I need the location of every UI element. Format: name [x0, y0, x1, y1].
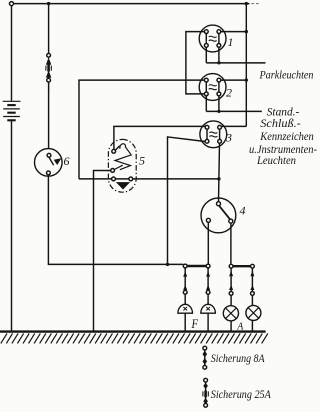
svg-text:F: F: [191, 316, 199, 331]
wire rheostat 5 bottom rail to lamp3/switch wire: [79, 178, 219, 180]
svg-text:Stand.-: Stand.-: [267, 107, 300, 119]
rheostat 5 (instrument light dimmer): [108, 139, 136, 192]
wire lamp 2 bottom bracket with leader to Stand label: [206, 96, 261, 112]
wire lamp 1 upper-left terminal down to lamp 2 lower-left terminal: [186, 32, 205, 94]
fuse element beads on drop F1: [183, 271, 187, 290]
svg-text:Sicherung 25A: Sicherung 25A: [211, 389, 271, 401]
fuse element beads on drop A2: [250, 271, 254, 290]
svg-text:Kennzeichen: Kennzeichen: [259, 131, 314, 143]
wire lamp 2 upper-right terminal to supply riser: [221, 79, 247, 81]
wire fuse drop A1: [230, 268, 232, 306]
wire switch 6 down then right to fuse bar F: [48, 176, 183, 264]
svg-text:2: 2: [226, 86, 232, 100]
wire fuse to switch 6: [48, 82, 50, 149]
svg-text:5: 5: [139, 154, 145, 168]
lamp A1 (bulb with cross): [223, 306, 238, 321]
wire riser to lamp 3 upper-right terminal: [222, 125, 247, 127]
wire fuse drop A2: [251, 268, 253, 306]
wire switch 4 right contact down to fuse bar A: [230, 223, 232, 264]
node junction on lamp 1 bracket: [217, 61, 220, 64]
wire lamp 3 upper-left terminal to rheostat 5 top: [114, 126, 205, 149]
terminal circles at ends of fuse bar F: [183, 264, 187, 268]
svg-text:A: A: [237, 321, 244, 333]
battery positive terminal on top bus: [10, 2, 14, 6]
wire battery lead down from positive terminal: [11, 6, 13, 101]
node corner dot of riser on top bus: [245, 2, 248, 5]
lamp F2 (headlamp dome symbol): [201, 304, 216, 313]
wire lamp F1 to ground: [184, 313, 186, 331]
switch 6 (pull switch): [35, 149, 63, 177]
fuse element beads on drop A1: [229, 271, 233, 290]
svg-text:Schluß.-: Schluß.-: [260, 118, 301, 130]
switch 4 (rotary light switch): [201, 198, 236, 233]
lamp 3 (two-filament bulb): [200, 121, 227, 148]
terminal circles below drop fuses: [183, 290, 187, 294]
node junction riser with lamp 2: [245, 78, 248, 81]
fuse bar F (bus): [185, 265, 208, 267]
lamp 1 (two-filament bulb): [199, 25, 226, 52]
wire battery negative lead down to chassis ground: [11, 121, 13, 331]
fuse bar A (bus): [231, 265, 252, 267]
lamp F1 (headlamp dome symbol): [178, 304, 193, 313]
wire lamp 3 lower-right terminal down to switch 4: [219, 143, 220, 202]
svg-text:Leuchten: Leuchten: [256, 155, 296, 167]
svg-text:3: 3: [225, 131, 232, 145]
svg-text:u.Jnstrumenten-: u.Jnstrumenten-: [249, 144, 317, 156]
svg-text:4: 4: [240, 204, 246, 218]
fuse legend symbol Sicherung 25A: [203, 378, 208, 407]
wire lamp F2 to ground: [207, 313, 209, 331]
node junction rheostat rail with switch feed: [217, 177, 220, 180]
fuse element beads on drop F2: [206, 271, 210, 290]
svg-text:6: 6: [64, 154, 70, 168]
terminal circles at ends of fuse bar A: [229, 264, 233, 268]
wire fuse drop F1: [184, 268, 186, 305]
node junction on lamp 2 bracket: [217, 110, 220, 113]
wire lamp 2 upper-left terminal loop to rheostat bottom: [79, 80, 204, 179]
node junction riser with lamp 1: [245, 30, 248, 33]
wire supply riser on right: [245, 4, 247, 127]
lamp 2 (two-filament bulb): [199, 74, 226, 101]
wire top supply bus from battery positive: [9, 3, 250, 5]
wire lamp 1 upper-right terminal to supply riser: [221, 31, 247, 33]
svg-text:Parkleuchten: Parkleuchten: [259, 70, 314, 82]
wire fuse drop F2: [207, 268, 209, 305]
battery B (6V, three cells): [3, 101, 21, 120]
lamp A2 (bulb with cross): [246, 305, 261, 320]
wire lamp 1 bottom bracket with leader to Parkleuchten label: [206, 47, 265, 63]
node junction lamp3 feed on bus to fuse bar: [166, 263, 169, 266]
svg-text:1: 1: [228, 35, 234, 49]
fuse legend symbol Sicherung 8A: [203, 346, 207, 369]
wire switch 4 left contact down to fuse bar F: [207, 222, 209, 264]
wire branch from top bus down to fuse: [48, 4, 50, 54]
svg-text:Sicherung 8A: Sicherung 8A: [211, 353, 265, 365]
wire faint print remnant of top bus: [252, 3, 259, 5]
node junction of fuse branch on top bus: [47, 2, 50, 5]
fuse S1 25A in battery branch: [46, 53, 51, 92]
ground (chassis) bar with hatching: [0, 332, 268, 344]
wire lamp A1 to ground: [230, 321, 232, 332]
wire rheostat 5 wiper to chassis ground: [94, 171, 111, 332]
wire lamp A2 to ground: [251, 321, 253, 332]
wire lamp 3 lower-left terminal down to fuse-bar feed: [168, 137, 206, 265]
